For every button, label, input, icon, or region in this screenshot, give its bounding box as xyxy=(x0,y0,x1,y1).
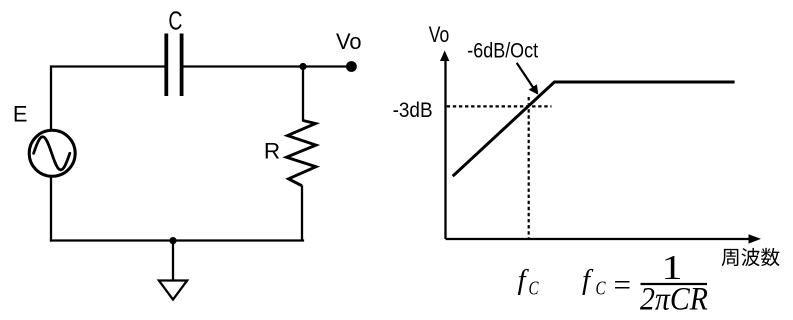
svg-text:Vo: Vo xyxy=(336,29,362,54)
dashed fc vertical line xyxy=(528,97,530,239)
y-axis (Vo) xyxy=(440,51,449,240)
svg-text:C: C xyxy=(168,8,182,36)
svg-text:E: E xyxy=(13,102,28,127)
response curve xyxy=(453,82,735,176)
annotation arrow to slope xyxy=(517,63,539,95)
svg-text:Vo: Vo xyxy=(429,22,450,47)
ground symbol xyxy=(159,281,187,300)
wire resistor to bottom rail xyxy=(301,186,303,241)
svg-text:-3dB: -3dB xyxy=(393,99,433,122)
wire top-left (source to capacitor) xyxy=(51,67,165,132)
resistor R zigzag xyxy=(287,121,317,186)
label fc (cutoff frequency) xyxy=(518,264,539,300)
label 周波数 (frequency) xyxy=(722,249,739,266)
wire node A to Vo terminal xyxy=(303,65,351,67)
svg-text:R: R xyxy=(264,138,280,163)
dashed -3dB level line xyxy=(447,105,552,107)
Vo terminal dot xyxy=(346,61,357,72)
wire source to bottom rail xyxy=(50,176,52,241)
x-axis xyxy=(446,234,762,243)
svg-text:C: C xyxy=(529,278,539,300)
svg-text:-6dB/Oct: -6dB/Oct xyxy=(467,40,538,63)
bottom rail wire xyxy=(50,239,304,241)
svg-text:C: C xyxy=(596,278,606,300)
svg-text:=: = xyxy=(614,267,631,302)
AC source E circle xyxy=(29,130,75,176)
ground stem wire xyxy=(172,241,174,280)
wire node A down to resistor xyxy=(302,67,304,122)
svg-text:2πCR: 2πCR xyxy=(640,282,708,315)
wire capacitor to node A xyxy=(183,65,304,67)
node A junction dot xyxy=(299,63,306,70)
AC source sine symbol xyxy=(34,137,70,170)
node B junction dot (ground tap) xyxy=(169,237,176,244)
formula fc = 1/(2piCR) xyxy=(582,248,708,318)
capacitor C1 xyxy=(166,34,181,97)
